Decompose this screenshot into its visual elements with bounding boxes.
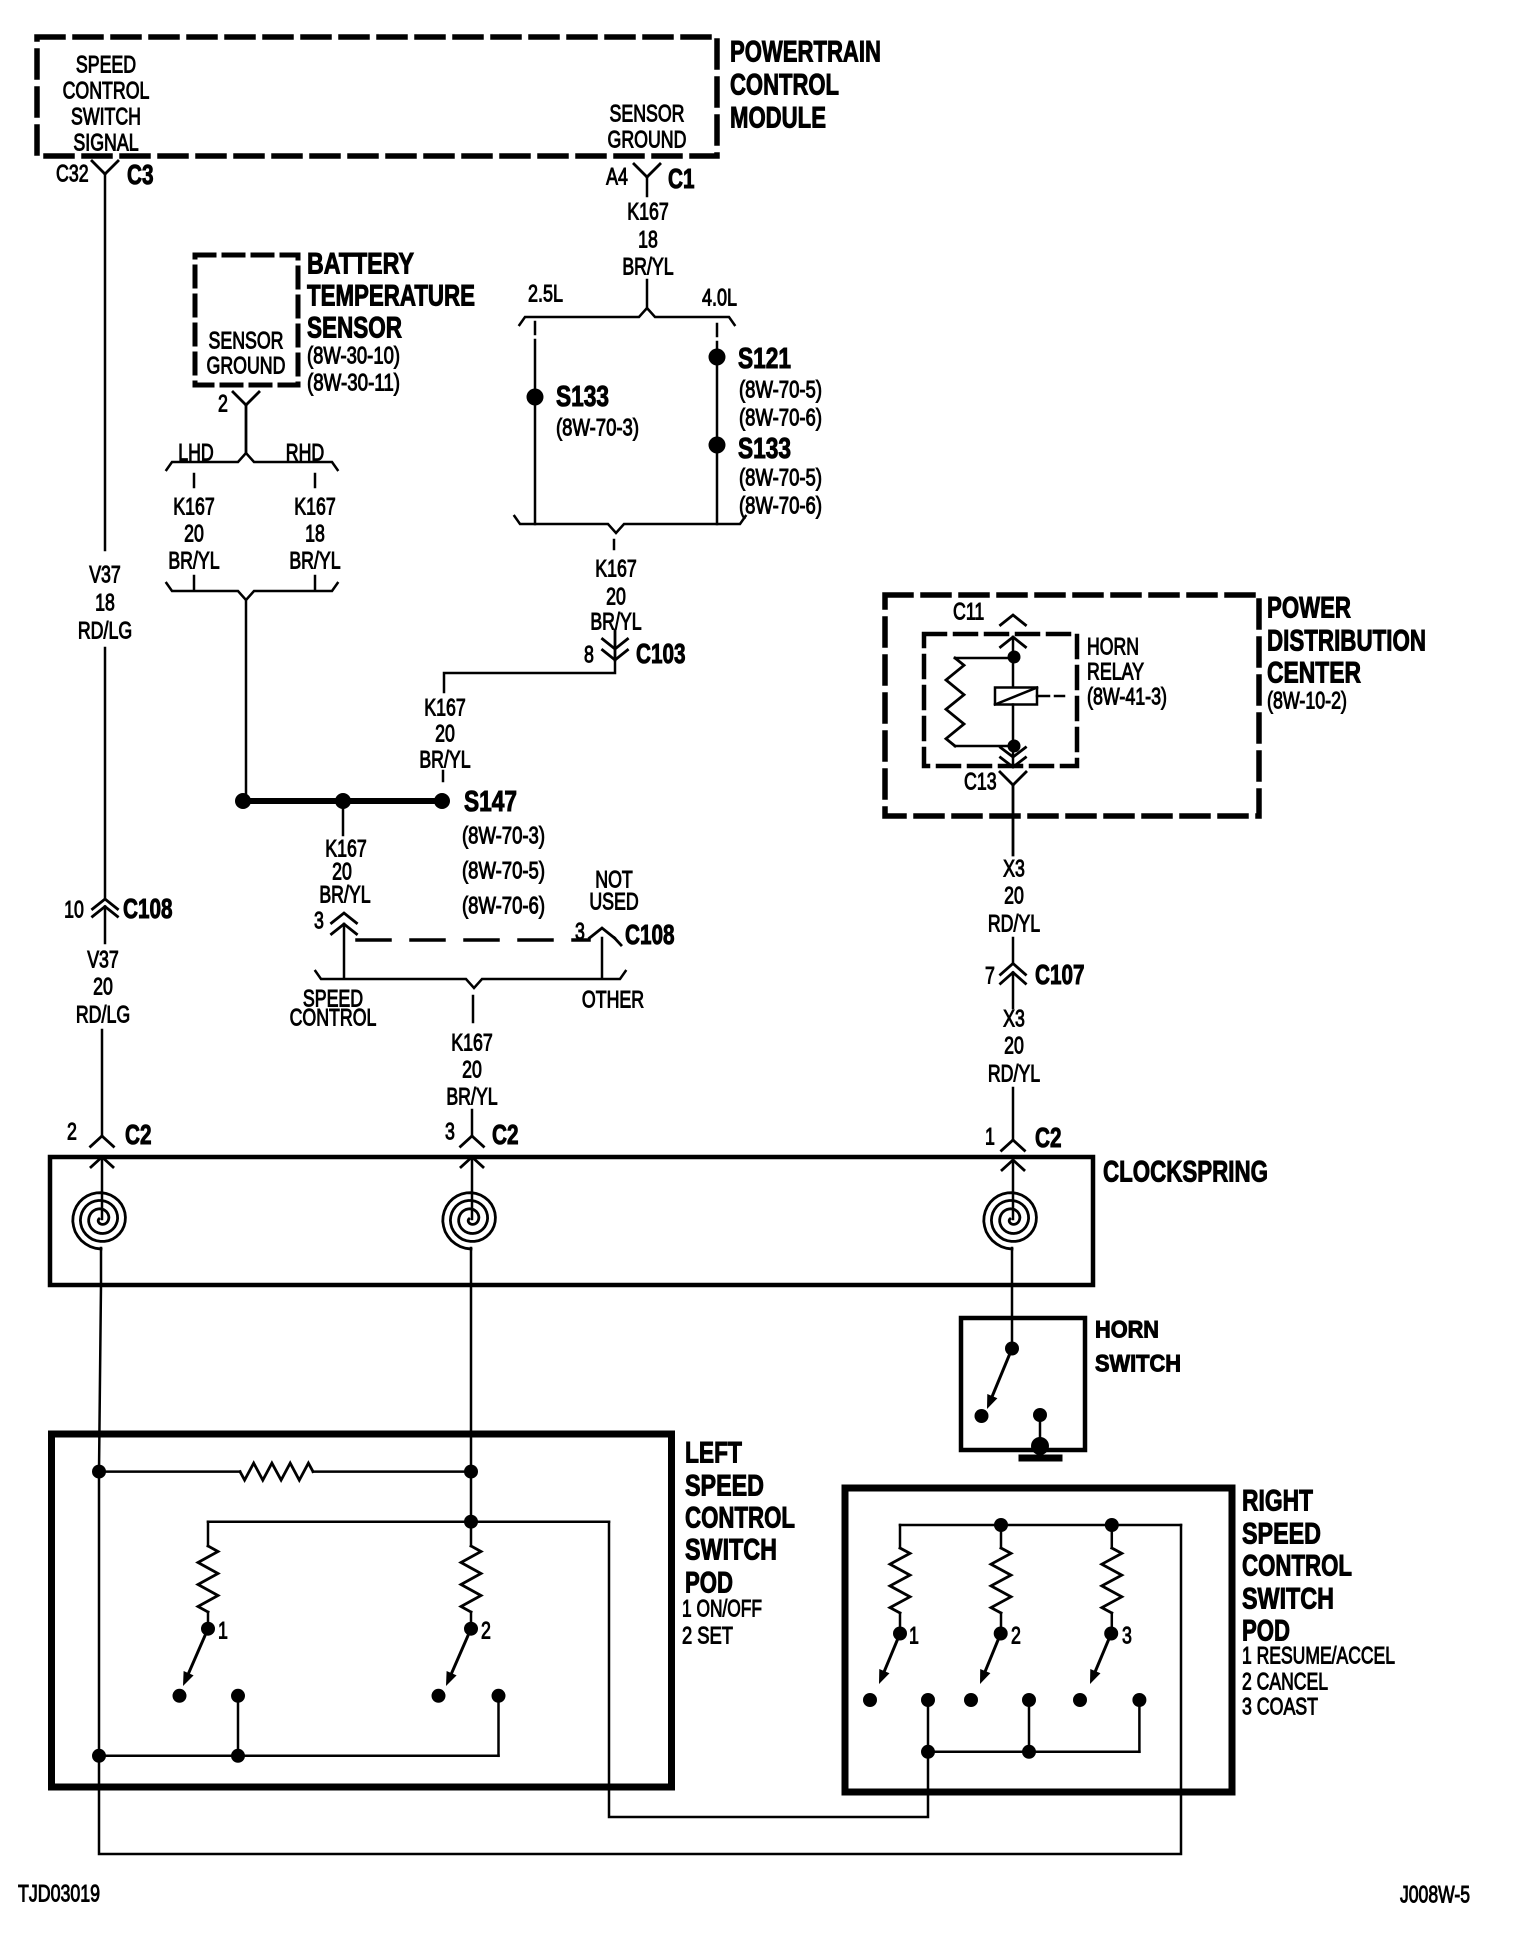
svg-text:DISTRIBUTION: DISTRIBUTION bbox=[1267, 625, 1426, 658]
clockspring box bbox=[50, 1157, 1093, 1285]
switch 2R blade bbox=[985, 1634, 1000, 1672]
svg-text:(8W-70-6): (8W-70-6) bbox=[739, 492, 822, 519]
switch 1 blade bbox=[189, 1629, 208, 1674]
wire K167 from merge to splice S147 bbox=[245, 600, 248, 797]
svg-text:CONTROL: CONTROL bbox=[685, 1502, 795, 1535]
resistor R3 (switch 2 SET) bbox=[461, 1546, 481, 1612]
switch 3R output contact bbox=[1132, 1693, 1146, 1707]
svg-text:(8W-70-5): (8W-70-5) bbox=[739, 376, 822, 403]
wire 4.0L branch bbox=[716, 324, 719, 336]
svg-text:S147: S147 bbox=[464, 786, 517, 818]
connector C1 pin A4 bbox=[606, 163, 628, 190]
connector C108 pin 3 other side bbox=[575, 918, 585, 945]
svg-text:A4: A4 bbox=[606, 163, 628, 190]
label SENSOR GROUND (PCM pin A4) bbox=[610, 100, 685, 127]
svg-text:2: 2 bbox=[67, 1118, 77, 1145]
wire to resistor R4 bbox=[899, 1525, 902, 1548]
svg-text:CLOCKSPRING: CLOCKSPRING bbox=[1103, 1156, 1268, 1189]
wire stub RHD lower bbox=[314, 576, 317, 589]
svg-text:C108: C108 bbox=[123, 893, 173, 924]
wire switch1R output down bbox=[927, 1700, 930, 1752]
clockspring entry chevron pin 1 bbox=[1002, 1160, 1024, 1170]
svg-text:RD/LG: RD/LG bbox=[78, 617, 132, 644]
svg-text:2 CANCEL: 2 CANCEL bbox=[1242, 1668, 1328, 1695]
clockspring coil (left) bbox=[73, 1193, 126, 1249]
svg-text:3: 3 bbox=[314, 907, 324, 934]
junction dot bottom rail left bbox=[92, 1749, 106, 1763]
svg-text:3: 3 bbox=[575, 918, 585, 945]
label HORN RELAY (8W-41-3) bbox=[1087, 633, 1139, 660]
switch 3R pivot contact bbox=[1104, 1627, 1118, 1641]
switch 2 blade bbox=[452, 1629, 471, 1674]
junction dot right pod bottom mid bbox=[1022, 1745, 1036, 1759]
svg-text:CONTROL: CONTROL bbox=[290, 1004, 377, 1031]
wire switch2 output down bbox=[497, 1696, 500, 1756]
svg-text:USED: USED bbox=[589, 888, 638, 915]
wire switch2R output down bbox=[1028, 1700, 1031, 1752]
wire stub LHD lower bbox=[193, 576, 196, 589]
junction dot relay bottom bbox=[1008, 740, 1021, 753]
label POWERTRAIN CONTROL MODULE bbox=[730, 36, 881, 69]
svg-text:LEFT: LEFT bbox=[685, 1437, 742, 1470]
svg-text:2: 2 bbox=[481, 1617, 491, 1644]
label K167 20 BR/YL (LHD) bbox=[173, 493, 215, 520]
svg-text:C107: C107 bbox=[1035, 959, 1085, 990]
clockspring entry chevron pin 2 bbox=[91, 1157, 113, 1167]
svg-text:1: 1 bbox=[985, 1123, 995, 1150]
label K167 20 BR/YL (speed control) bbox=[325, 835, 367, 862]
connector C108 pin 3 speed control side bbox=[314, 907, 324, 934]
wire mid-rail right leg down/out of pod bbox=[609, 1522, 928, 1817]
switch 2R thrown contact bbox=[964, 1693, 978, 1707]
svg-text:BR/YL: BR/YL bbox=[168, 547, 219, 574]
switch 1R pivot contact bbox=[893, 1627, 907, 1641]
wire V37 to C108 bbox=[104, 648, 107, 899]
svg-text:7: 7 bbox=[985, 962, 995, 989]
clockspring coil (right) bbox=[984, 1193, 1037, 1249]
svg-text:CONTROL: CONTROL bbox=[730, 69, 839, 102]
svg-text:20: 20 bbox=[606, 583, 626, 610]
splice S147 trunk bbox=[243, 798, 442, 804]
pin label 2 bbox=[481, 1617, 491, 1644]
wire X3 to clockspring bbox=[1012, 1088, 1015, 1140]
wire middle down bbox=[470, 1472, 473, 1522]
svg-text:8: 8 bbox=[584, 641, 594, 668]
label X3 20 RD/YL (lower) bbox=[1003, 1005, 1025, 1032]
connector C2 pin 3 at clockspring bbox=[445, 1118, 455, 1145]
label SPEED CONTROL SWITCH SIGNAL bbox=[76, 51, 136, 78]
wire switch1 output down bbox=[237, 1696, 240, 1756]
svg-text:C11: C11 bbox=[953, 598, 984, 625]
svg-text:3: 3 bbox=[445, 1118, 455, 1145]
svg-text:SIGNAL: SIGNAL bbox=[73, 129, 138, 156]
svg-text:X3: X3 bbox=[1003, 1005, 1025, 1032]
LHD/RHD split bracket bbox=[166, 453, 337, 470]
label CLOCKSPRING bbox=[1103, 1156, 1268, 1189]
resistor R1 (horizontal) bbox=[240, 1463, 313, 1480]
wire left pod left leg down/out of pod bbox=[99, 1472, 1181, 1854]
label RIGHT SPEED CONTROL SWITCH POD bbox=[1242, 1485, 1313, 1518]
clockspring entry chevron pin 3 bbox=[461, 1157, 483, 1167]
wire stub RHD bbox=[314, 474, 317, 487]
label V37 20 RD/LG bbox=[87, 946, 119, 973]
svg-text:CONTROL: CONTROL bbox=[63, 77, 150, 104]
wire from C103 to S147 bbox=[444, 660, 615, 692]
svg-text:SPEED: SPEED bbox=[1242, 1518, 1321, 1551]
wire 2.5L branch bbox=[534, 322, 537, 334]
connector C2 pin 1 at clockspring bbox=[985, 1123, 995, 1150]
label K167 18 BR/YL (below C1) bbox=[627, 198, 669, 225]
mid rail wire bbox=[208, 1520, 609, 1523]
svg-text:K167: K167 bbox=[451, 1029, 493, 1056]
label K167 20 BR/YL (to clockspring) bbox=[451, 1029, 493, 1056]
switch 2R output contact bbox=[1022, 1693, 1036, 1707]
svg-text:C103: C103 bbox=[636, 638, 686, 669]
svg-text:BR/YL: BR/YL bbox=[419, 746, 470, 773]
engine merge bracket bbox=[514, 516, 745, 533]
connector chevron below C11 bbox=[1001, 637, 1026, 647]
svg-text:S121: S121 bbox=[738, 343, 791, 375]
svg-text:C2: C2 bbox=[492, 1119, 519, 1150]
svg-text:BR/YL: BR/YL bbox=[289, 547, 340, 574]
horn switch pivot contact bbox=[1005, 1342, 1019, 1356]
svg-text:SWITCH: SWITCH bbox=[1242, 1583, 1334, 1616]
label C11 bbox=[953, 598, 984, 625]
battery temperature sensor box (dashed) bbox=[195, 255, 298, 385]
svg-text:(8W-70-5): (8W-70-5) bbox=[462, 857, 545, 884]
svg-text:C3: C3 bbox=[127, 159, 154, 190]
junction dot S147 right bbox=[434, 793, 450, 809]
right pod top rail bbox=[900, 1524, 1181, 1527]
label LHD bbox=[178, 439, 214, 466]
clockspring coil wire pin 3 bbox=[471, 1157, 474, 1219]
horn relay coil U1 bbox=[995, 688, 1037, 705]
switch 2 thrown contact bbox=[432, 1689, 446, 1703]
wire to resistor R2 bbox=[207, 1522, 210, 1546]
svg-text:20: 20 bbox=[1004, 882, 1024, 909]
junction dot bottom rail mid bbox=[231, 1749, 245, 1763]
svg-text:(8W-70-6): (8W-70-6) bbox=[739, 404, 822, 431]
svg-text:CONTROL: CONTROL bbox=[1242, 1550, 1352, 1583]
svg-text:(8W-41-3): (8W-41-3) bbox=[1087, 683, 1167, 710]
right speed control switch pod box bbox=[845, 1488, 1232, 1792]
svg-text:J008W-5: J008W-5 bbox=[1400, 1881, 1470, 1908]
svg-text:MODULE: MODULE bbox=[730, 102, 826, 135]
wire K167 to engine split bbox=[646, 177, 649, 196]
svg-text:S133: S133 bbox=[556, 381, 609, 413]
svg-text:C1: C1 bbox=[668, 163, 695, 194]
svg-text:TEMPERATURE: TEMPERATURE bbox=[307, 280, 475, 313]
svg-text:RD/YL: RD/YL bbox=[988, 1060, 1040, 1087]
connector C2 pin 2 at clockspring bbox=[67, 1118, 77, 1145]
svg-text:(8W-70-3): (8W-70-3) bbox=[556, 414, 639, 441]
left speed control switch pod box bbox=[52, 1434, 672, 1787]
junction dot S147 middle bbox=[335, 793, 351, 809]
wire clockspring pin3 down to left pod bbox=[470, 1285, 473, 1472]
wire to resistor R1 bbox=[99, 1470, 240, 1473]
svg-text:10: 10 bbox=[64, 896, 84, 923]
wire V37 to clockspring bbox=[101, 1030, 104, 1136]
switch 3R thrown contact bbox=[1073, 1693, 1087, 1707]
svg-text:(8W-70-6): (8W-70-6) bbox=[462, 892, 545, 919]
label POWER DISTRIBUTION CENTER bbox=[1267, 592, 1351, 625]
switch 3R blade bbox=[1095, 1634, 1111, 1672]
label K167 20 BR/YL (above S147) bbox=[424, 694, 466, 721]
svg-text:RD/YL: RD/YL bbox=[988, 910, 1040, 937]
wire X3 to C107 bbox=[1012, 938, 1015, 964]
splice S133 (2.5L) bbox=[527, 389, 544, 406]
horn switch thrown contact bbox=[975, 1409, 989, 1423]
horn switch box bbox=[961, 1318, 1085, 1450]
svg-text:CENTER: CENTER bbox=[1267, 657, 1361, 690]
clockspring coil wire pin 1 bbox=[1012, 1157, 1015, 1219]
resistor R6 (switch 3 COAST) bbox=[1111, 1525, 1114, 1548]
wire clockspring to horn switch bbox=[1011, 1285, 1014, 1350]
svg-text:K167: K167 bbox=[173, 493, 215, 520]
svg-text:GROUND: GROUND bbox=[207, 352, 286, 379]
switch 2 pivot contact bbox=[464, 1622, 478, 1636]
svg-text:C2: C2 bbox=[1035, 1122, 1062, 1153]
junction dot S147 left bbox=[235, 793, 251, 809]
clockspring coil wire pin 2 bbox=[101, 1157, 104, 1219]
svg-text:20: 20 bbox=[93, 973, 113, 1000]
svg-text:RELAY: RELAY bbox=[1087, 658, 1144, 685]
svg-text:(8W-70-3): (8W-70-3) bbox=[462, 822, 545, 849]
svg-text:SENSOR: SENSOR bbox=[307, 312, 402, 345]
junction dot top rail r6 bbox=[1105, 1518, 1119, 1532]
engine split bracket 2.5L/4.0L bbox=[519, 308, 734, 325]
svg-text:SWITCH: SWITCH bbox=[1095, 1350, 1181, 1377]
svg-text:BR/YL: BR/YL bbox=[446, 1083, 497, 1110]
svg-text:RIGHT: RIGHT bbox=[1242, 1485, 1313, 1518]
junction dot top rail r5 bbox=[994, 1518, 1008, 1532]
svg-text:20: 20 bbox=[184, 520, 204, 547]
label TJD03019 bbox=[18, 1880, 100, 1907]
svg-text:C2: C2 bbox=[125, 1119, 152, 1150]
connector C108 pin 10 (in-line) bbox=[64, 896, 84, 923]
switch 1R blade bbox=[884, 1634, 900, 1672]
svg-text:20: 20 bbox=[462, 1056, 482, 1083]
label LEFT SPEED CONTROL SWITCH POD bbox=[685, 1437, 742, 1470]
svg-text:SWITCH: SWITCH bbox=[685, 1534, 777, 1567]
powertrain control module box (dashed) bbox=[37, 37, 717, 156]
junction dot mid rail bbox=[464, 1515, 478, 1529]
svg-text:K167: K167 bbox=[595, 555, 637, 582]
label 4.0L bbox=[702, 284, 737, 311]
dashed connector line C108 bbox=[357, 938, 589, 942]
svg-text:4.0L: 4.0L bbox=[702, 284, 737, 311]
connector pin 2 below BTS bbox=[218, 390, 228, 417]
connector C11 chevron bbox=[1001, 615, 1026, 625]
left pod bottom rail bbox=[99, 1755, 499, 1758]
relay wire lower bbox=[1012, 705, 1015, 768]
label C13 bbox=[964, 768, 997, 795]
wire clockspring pin2 down to left pod bbox=[99, 1285, 101, 1471]
ground G (horn switch) bbox=[1031, 1437, 1049, 1455]
svg-text:1 RESUME/ACCEL: 1 RESUME/ACCEL bbox=[1242, 1642, 1395, 1669]
svg-text:2 SET: 2 SET bbox=[682, 1622, 733, 1649]
svg-text:(8W-70-5): (8W-70-5) bbox=[739, 464, 822, 491]
junction dot left pod top-middle bbox=[464, 1465, 478, 1479]
svg-text:C32: C32 bbox=[56, 160, 89, 187]
junction dot left pod top-left bbox=[92, 1465, 106, 1479]
svg-text:K167: K167 bbox=[424, 694, 466, 721]
svg-text:RHD: RHD bbox=[286, 439, 325, 466]
usage merge bracket bbox=[315, 971, 625, 988]
svg-text:SENSOR: SENSOR bbox=[209, 327, 284, 354]
svg-text:S133: S133 bbox=[738, 433, 791, 465]
svg-text:LHD: LHD bbox=[178, 439, 214, 466]
svg-text:TJD03019: TJD03019 bbox=[18, 1880, 100, 1907]
horn switch blade bbox=[992, 1349, 1012, 1397]
svg-text:18: 18 bbox=[638, 226, 658, 253]
connector C13 fork bbox=[1000, 772, 1026, 855]
relay coil resistor branch bbox=[955, 657, 1014, 660]
connector C13 chevrons bbox=[1001, 748, 1026, 758]
wire from S147 down to C108 speed control bbox=[342, 805, 345, 835]
svg-text:K167: K167 bbox=[294, 493, 336, 520]
svg-text:1: 1 bbox=[218, 1617, 228, 1644]
label NOT USED bbox=[595, 866, 633, 893]
svg-text:BATTERY: BATTERY bbox=[307, 248, 414, 281]
wire V37 upper segment bbox=[104, 174, 107, 550]
svg-text:SENSOR: SENSOR bbox=[610, 100, 685, 127]
label S147 bbox=[464, 786, 517, 818]
svg-text:SPEED: SPEED bbox=[76, 51, 136, 78]
label 2.5L bbox=[528, 280, 563, 307]
label SPEED CONTROL bbox=[303, 985, 363, 1012]
pin label 3 (right pod) bbox=[1122, 1622, 1132, 1649]
connector C103 pin 8 (in-line) bbox=[584, 641, 594, 668]
svg-text:C13: C13 bbox=[964, 768, 997, 795]
svg-text:2.5L: 2.5L bbox=[528, 280, 563, 307]
label HORN SWITCH bbox=[1095, 1316, 1159, 1343]
switch 2R pivot contact bbox=[994, 1627, 1008, 1641]
svg-text:(8W-30-11): (8W-30-11) bbox=[307, 369, 400, 396]
svg-text:3: 3 bbox=[1122, 1622, 1132, 1649]
svg-text:1 ON/OFF: 1 ON/OFF bbox=[682, 1595, 762, 1622]
wire to resistor R3 bbox=[470, 1522, 473, 1546]
svg-text:2: 2 bbox=[1011, 1622, 1021, 1649]
svg-text:GROUND: GROUND bbox=[608, 126, 687, 153]
switch 1 pivot contact bbox=[201, 1622, 215, 1636]
svg-text:20: 20 bbox=[1004, 1032, 1024, 1059]
pin label 1 (right pod) bbox=[909, 1622, 919, 1649]
junction dot relay top bbox=[1008, 651, 1021, 664]
svg-text:RD/LG: RD/LG bbox=[76, 1001, 130, 1028]
junction dot right pod bottom left bbox=[921, 1745, 935, 1759]
pin label 2 (right pod) bbox=[1011, 1622, 1021, 1649]
pin label 1 bbox=[218, 1617, 228, 1644]
svg-text:18: 18 bbox=[95, 589, 115, 616]
svg-text:K167: K167 bbox=[627, 198, 669, 225]
svg-text:OTHER: OTHER bbox=[582, 986, 644, 1013]
svg-text:1: 1 bbox=[909, 1622, 919, 1649]
label X3 20 RD/YL (upper) bbox=[1003, 855, 1025, 882]
wire stub below merge bbox=[613, 540, 616, 549]
wire switch3R output down bbox=[1138, 1700, 1141, 1752]
svg-text:2: 2 bbox=[218, 390, 228, 417]
svg-text:V37: V37 bbox=[87, 946, 119, 973]
label SENSOR GROUND (BTS) bbox=[209, 327, 284, 354]
splice S121 (4.0L) bbox=[709, 349, 726, 366]
label J008W-5 bbox=[1400, 1881, 1470, 1908]
LHD/RHD merge bracket bbox=[166, 583, 337, 600]
wire below usage merge bbox=[472, 996, 475, 1022]
splice S133 (4.0L) bbox=[709, 437, 726, 454]
label BATTERY TEMPERATURE SENSOR bbox=[307, 248, 414, 281]
wire stub LHD bbox=[193, 474, 196, 487]
wire to clockspring C2 pin 3 bbox=[471, 1110, 474, 1136]
svg-text:SPEED: SPEED bbox=[685, 1470, 764, 1503]
switch 1 thrown contact bbox=[173, 1689, 187, 1703]
label OTHER bbox=[582, 986, 644, 1013]
power distribution center box (dashed) bbox=[885, 595, 1259, 816]
switch 1 output contact bbox=[231, 1689, 245, 1703]
horn relay inner box (dashed) bbox=[924, 634, 1077, 766]
relay wire upper bbox=[1012, 637, 1015, 688]
connector C3 pin C32 bbox=[56, 160, 89, 187]
label RHD bbox=[286, 439, 325, 466]
svg-text:(8W-30-10): (8W-30-10) bbox=[307, 342, 400, 369]
right pod bottom rail bbox=[928, 1751, 1139, 1754]
switch 1R output contact bbox=[921, 1693, 935, 1707]
svg-text:HORN: HORN bbox=[1095, 1316, 1159, 1343]
svg-text:SWITCH: SWITCH bbox=[71, 103, 141, 130]
svg-text:POWER: POWER bbox=[1267, 592, 1351, 625]
resistor R2 (switch 1 ON/OFF) bbox=[198, 1546, 218, 1612]
switch 1R thrown contact bbox=[863, 1693, 877, 1707]
horn switch output contact bbox=[1033, 1408, 1047, 1422]
svg-text:HORN: HORN bbox=[1087, 633, 1139, 660]
label K167 20 BR/YL (above C103) bbox=[595, 555, 637, 582]
wire resistor R1 to middle bbox=[313, 1470, 471, 1473]
svg-text:BR/YL: BR/YL bbox=[622, 253, 673, 280]
svg-text:X3: X3 bbox=[1003, 855, 1025, 882]
svg-text:18: 18 bbox=[305, 520, 325, 547]
svg-text:3 COAST: 3 COAST bbox=[1242, 1693, 1318, 1720]
wire to horn switch ground bbox=[1039, 1415, 1042, 1446]
svg-text:POWERTRAIN: POWERTRAIN bbox=[730, 36, 881, 69]
svg-text:20: 20 bbox=[435, 720, 455, 747]
clockspring coil (middle) bbox=[443, 1193, 496, 1249]
label K167 18 BR/YL (RHD) bbox=[294, 493, 336, 520]
label V37 18 RD/LG bbox=[89, 561, 121, 588]
svg-text:V37: V37 bbox=[89, 561, 121, 588]
svg-text:(8W-10-2): (8W-10-2) bbox=[1267, 687, 1347, 714]
svg-text:C108: C108 bbox=[625, 919, 675, 950]
svg-text:BR/YL: BR/YL bbox=[319, 881, 370, 908]
resistor R4 (switch 1 RESUME) bbox=[890, 1548, 910, 1613]
connector C107 pin 7 (in-line) bbox=[985, 962, 995, 989]
resistor R5 (switch 2 CANCEL) bbox=[1000, 1525, 1003, 1548]
switch 2 output contact bbox=[492, 1689, 506, 1703]
relay coil stub bbox=[1037, 695, 1049, 698]
